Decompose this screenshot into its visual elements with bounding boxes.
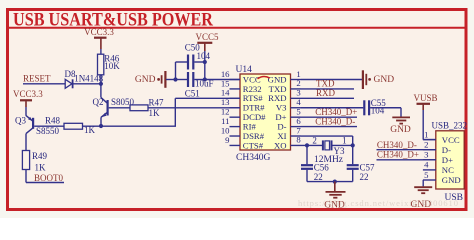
svg-text:3: 3: [424, 150, 428, 160]
title underline: [6, 27, 468, 29]
pin 3 stub: [291, 97, 302, 99]
svg-text:C51: C51: [185, 88, 200, 98]
wire GND to node C: [166, 79, 176, 81]
svg-text:BOOT0: BOOT0: [34, 173, 63, 183]
pin 16 stub: [230, 79, 241, 81]
svg-text:https://blog.csdn.net/weixin_4: https://blog.csdn.net/weixin_4300610: [298, 198, 459, 208]
svg-text:4: 4: [424, 160, 429, 170]
wire XO to crystal: [301, 144, 323, 146]
svg-text:1K: 1K: [35, 163, 47, 173]
svg-text:NC: NC: [442, 165, 454, 175]
svg-text:USB_232: USB_232: [432, 120, 468, 130]
earth ground crystal: [334, 182, 336, 192]
node B junction: [99, 124, 103, 128]
wire node A to Q2 collector: [100, 84, 102, 98]
conn pin 5 stub: [423, 179, 436, 181]
earth ground C55: [392, 116, 410, 118]
net label CH340 D- conn: [377, 149, 436, 151]
pin 15 stub: [230, 88, 241, 90]
capacitor C51 10uF: [176, 79, 188, 81]
earth ground USB: [414, 186, 432, 188]
node H junction: [333, 180, 337, 184]
svg-text:R47: R47: [149, 97, 165, 107]
pin 1 stub: [291, 79, 302, 81]
pin 6 stub: [291, 126, 302, 128]
pin 2 stub: [291, 88, 302, 90]
pin 11 stub: [230, 126, 241, 128]
crystal Y3 12MHz: [322, 140, 324, 150]
node E junction: [203, 77, 207, 81]
svg-text:GND: GND: [390, 125, 411, 135]
wire R48 to node B: [83, 125, 102, 127]
wire R49 to BOOT0: [25, 170, 27, 183]
resistor R48 1K: [64, 123, 83, 129]
svg-text:R48: R48: [45, 115, 61, 125]
net label CH340 D+ conn: [377, 159, 436, 161]
resistor R49 1K: [22, 151, 29, 170]
pin 8 stub: [291, 144, 302, 146]
svg-text:Q3: Q3: [15, 116, 26, 126]
svg-text:5: 5: [424, 170, 428, 180]
svg-text:1K: 1K: [149, 108, 161, 118]
conn pin 2 stub: [423, 149, 436, 151]
pin 7 stub: [291, 135, 302, 137]
wire crystal ground rail: [307, 181, 353, 183]
svg-text:GND: GND: [374, 75, 395, 85]
capacitor C57 22: [352, 145, 354, 164]
wire VCC5 to pin 16: [205, 79, 240, 81]
wire VCC3.3 to Q3: [25, 107, 27, 116]
svg-text:9: 9: [225, 135, 229, 145]
svg-text:D-: D-: [442, 145, 451, 155]
conn pin 4 stub: [423, 169, 436, 171]
wire C50 right: [194, 61, 204, 63]
svg-text:Q2: Q2: [93, 97, 104, 107]
svg-text:104: 104: [197, 51, 211, 61]
svg-text:GND: GND: [442, 175, 461, 185]
svg-text:1: 1: [424, 129, 428, 139]
net label RXD: [301, 97, 354, 99]
node A junction: [99, 82, 103, 86]
svg-text:8: 8: [296, 135, 301, 145]
pin 14 stub: [230, 97, 241, 99]
ic U14 CH340G: [240, 74, 291, 150]
pin 12 stub: [230, 116, 241, 118]
wire node B rail to RTS: [101, 125, 176, 127]
red annotation arc: [258, 77, 270, 79]
wire VUSB to pin 1: [422, 110, 424, 140]
svg-text:R49: R49: [32, 151, 48, 161]
capacitor C50 104: [187, 55, 189, 70]
wire conn pin5 to ground: [422, 180, 424, 186]
svg-text:CTS#: CTS#: [243, 140, 264, 150]
wire cap rail left: [175, 62, 177, 80]
pin 5 stub: [291, 116, 302, 118]
wire XI to crystal: [301, 135, 353, 137]
node D junction: [203, 60, 207, 64]
pin 9 stub: [230, 144, 241, 146]
svg-text:VCC5: VCC5: [196, 32, 220, 42]
pin 13 stub: [230, 107, 241, 109]
wire VCC5 rail: [204, 51, 206, 80]
net label CH340 D-: [301, 126, 357, 128]
svg-text:D+: D+: [442, 155, 453, 165]
wire Q2 emitter down: [100, 117, 102, 126]
svg-text:22: 22: [314, 172, 323, 182]
conn pin 1 stub: [423, 139, 436, 141]
svg-text:VCC: VCC: [442, 135, 460, 145]
diode D8 1N4148: [65, 79, 72, 88]
conn pin 3 stub: [423, 159, 436, 161]
wire R47 to pin 13: [148, 107, 240, 109]
svg-text:XO: XO: [274, 140, 287, 150]
wire R46 to node A: [100, 75, 102, 84]
power ground GND top right: [362, 70, 364, 89]
svg-text:10K: 10K: [104, 61, 120, 71]
net label CH340 D+: [301, 116, 357, 118]
wire V3 to C55: [301, 107, 363, 109]
svg-text:VCC3.3: VCC3.3: [84, 27, 114, 37]
wire pin1 to GND: [301, 79, 362, 81]
wire VCC3.3 to R46: [100, 49, 102, 54]
wire Q3 emitter to R49: [25, 134, 27, 151]
resistor R46 10K: [98, 54, 104, 75]
node C junction: [173, 77, 177, 81]
svg-text:RESET: RESET: [23, 74, 51, 84]
capacitor C56 22: [306, 145, 308, 164]
wire RESET: [23, 83, 65, 85]
pin 4 stub: [291, 107, 302, 109]
wire Q3 base to R48: [34, 125, 64, 127]
svg-text:1: 1: [342, 135, 347, 145]
wire Q2 base to R47: [109, 107, 130, 109]
svg-text:CH340_D-: CH340_D-: [315, 116, 355, 126]
transistor Q2 S8050: [106, 100, 108, 116]
svg-text:22: 22: [360, 172, 369, 182]
svg-text:2: 2: [312, 135, 317, 145]
resistor R47 1K: [130, 105, 148, 111]
wire C55 to GND: [370, 107, 401, 109]
net label TXD: [301, 88, 354, 90]
svg-text:RXD: RXD: [316, 88, 336, 98]
svg-text:CH340_D+: CH340_D+: [377, 149, 419, 159]
transistor Q3 S8550: [32, 118, 34, 129]
svg-text:2: 2: [424, 140, 428, 150]
pin 10 stub: [230, 135, 241, 137]
svg-text:VCC3.3: VCC3.3: [13, 89, 43, 99]
wire D8 to node A: [73, 83, 101, 85]
svg-text:S8550: S8550: [36, 126, 60, 136]
node F junction: [305, 143, 309, 147]
svg-text:GND: GND: [135, 75, 156, 85]
svg-text:VUSB: VUSB: [414, 93, 438, 103]
capacitor C55 104: [363, 100, 365, 115]
svg-text:CH340G: CH340G: [236, 153, 270, 163]
node G junction: [351, 143, 355, 147]
